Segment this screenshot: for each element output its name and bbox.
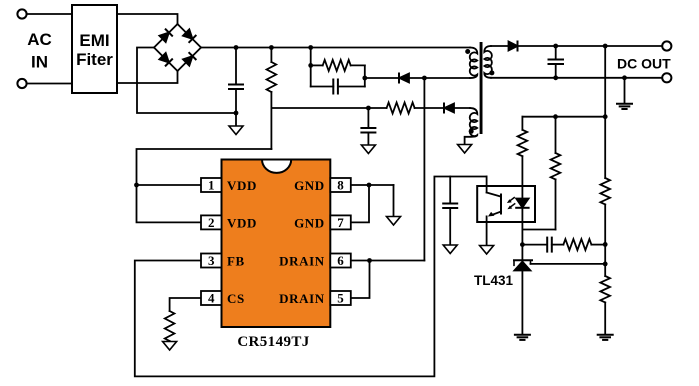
node C1 bottom (234, 111, 239, 116)
primary phase dot (465, 49, 470, 54)
svg-text:3: 3 (208, 253, 215, 268)
terminal DC OUT - (662, 73, 671, 82)
pin box 1 (201, 178, 222, 192)
wire drain (423, 78, 425, 261)
svg-text:2: 2 (208, 215, 215, 230)
ground (earth) DC OUT (617, 104, 632, 109)
pin box 7 (330, 215, 351, 229)
resistor R4 opto bias (518, 117, 528, 199)
wire snubber left (310, 48, 312, 87)
resistor R2 snubber (311, 60, 365, 71)
wire (117, 71, 178, 83)
diode D6 vdd (444, 104, 470, 113)
resistor R9 sense (165, 311, 175, 342)
ground (arrow) opto emitter (480, 246, 494, 255)
svg-text:FB: FB (227, 254, 245, 269)
transformer T1 core (480, 42, 483, 134)
resistor R8 divider lower (600, 276, 610, 302)
ground (arrow) IC gnd (387, 217, 401, 226)
node out gnd tee (622, 75, 627, 80)
svg-text:Fiter: Fiter (76, 50, 113, 69)
wire divider bottom (604, 302, 606, 334)
node C1 top (234, 45, 239, 50)
wire pin8 to pin7 (351, 185, 369, 222)
bridge diode D1 (left-top) (159, 29, 172, 42)
wire primary bottom (424, 77, 470, 79)
TL431 U3 (514, 260, 605, 334)
node snubber R tee (308, 63, 313, 68)
ground (arrow) aux (458, 145, 472, 154)
capacitor C6 comp (522, 238, 563, 252)
pin box 6 (330, 254, 351, 268)
resistor R5 parallel (551, 117, 561, 230)
bridge diode D4 (bottom-right) (183, 53, 196, 66)
svg-text:5: 5 (337, 291, 344, 306)
svg-text:IN: IN (31, 53, 48, 72)
svg-text:8: 8 (337, 178, 344, 193)
capacitor C1 bulk (229, 48, 243, 127)
svg-text:GND: GND (294, 215, 325, 230)
wire (365, 77, 399, 79)
wire divider vertical (604, 46, 606, 178)
svg-text:VDD: VDD (227, 178, 257, 193)
ground (arrow) under C5 (443, 245, 457, 254)
ground (earth) TL431 (515, 335, 530, 340)
node comp left (520, 242, 525, 247)
svg-text:GND: GND (294, 178, 325, 193)
wire cathode to TL431 (521, 245, 523, 261)
svg-text:EMI: EMI (79, 31, 109, 50)
capacitor C4 output (549, 46, 564, 78)
terminal DC OUT + (662, 41, 671, 50)
node C4 top (553, 44, 558, 49)
wire FB net (135, 177, 487, 377)
node bias tee (553, 114, 558, 119)
wire (518, 45, 663, 47)
ground (earth) divider (598, 335, 613, 340)
node aux cap tee (366, 106, 371, 111)
wire bridge minus (137, 48, 236, 114)
aux phase dot (469, 129, 474, 134)
transformer secondary winding (484, 46, 492, 78)
wire VDD feed (137, 149, 272, 222)
transformer primary winding (470, 48, 478, 79)
wire GND pin8 (351, 184, 394, 186)
node ref (603, 262, 608, 267)
wire gnd stub (393, 185, 395, 217)
terminal AC top (17, 9, 26, 18)
node A (603, 114, 608, 119)
wire (27, 13, 72, 15)
opto light arrows (507, 198, 515, 210)
pin box 4 (201, 291, 222, 305)
wire (117, 14, 178, 24)
IC U1 body (222, 160, 331, 328)
resistor R7 divider upper (600, 178, 610, 204)
svg-text:6: 6 (337, 253, 344, 268)
svg-text:DRAIN: DRAIN (279, 254, 325, 269)
wire VDD aux line (271, 107, 368, 109)
ground (arrow) under C3 (361, 145, 375, 154)
terminal AC bottom (17, 79, 26, 88)
ground (arrow) under C1 (229, 126, 243, 135)
opto LED (516, 199, 528, 245)
svg-text:4: 4 (208, 291, 215, 306)
svg-text:DC OUT: DC OUT (617, 56, 671, 72)
wire pin1 (137, 184, 202, 186)
node C4 bottom (553, 75, 558, 80)
pin box 5 (330, 291, 351, 305)
svg-text:CR5149TJ: CR5149TJ (237, 334, 309, 350)
bridge diode D3 (left-bottom) (159, 53, 172, 66)
pin box 8 (330, 178, 351, 192)
bridge rectifier diamond (154, 24, 201, 71)
bridge diode D2 (top-right) (183, 29, 196, 42)
IC notch (262, 160, 291, 173)
resistor R6 comp (563, 239, 605, 250)
resistor R3 vdd (368, 103, 443, 114)
svg-text:VDD: VDD (227, 215, 257, 230)
node comp right (603, 242, 608, 247)
wire DC+ rail (201, 47, 470, 49)
svg-text:CS: CS (227, 291, 245, 306)
wire node A to bias (522, 116, 605, 118)
node snubber out (362, 76, 367, 81)
wire secondary top (491, 45, 509, 47)
node snubber rail (308, 45, 313, 50)
wire (27, 83, 72, 85)
svg-text:7: 7 (337, 215, 344, 230)
diode D5 snubber (399, 74, 424, 83)
node divider top (603, 44, 608, 49)
capacitor C5 FB filter (443, 177, 457, 246)
svg-text:DRAIN: DRAIN (279, 291, 325, 306)
capacitor C2 snubber (311, 80, 365, 94)
wire DRAIN pin6 (351, 260, 424, 262)
transformer aux winding (465, 108, 478, 145)
wire CS pin (170, 298, 201, 311)
opto LED line (521, 186, 523, 199)
node drain top (422, 76, 427, 81)
pin box 3 (201, 254, 222, 268)
optocoupler U2 box (477, 186, 535, 222)
EMI filter box (72, 5, 117, 93)
secondary phase dot (489, 70, 494, 75)
wire snubber right (364, 65, 366, 86)
node pin1 tee (134, 183, 139, 188)
pin box 2 (201, 215, 222, 229)
node R1 top (269, 45, 274, 50)
wire out gnd stub (624, 78, 626, 104)
svg-text:AC: AC (27, 30, 52, 49)
resistor R1 startup (267, 48, 277, 150)
node pin6 (367, 258, 372, 263)
wire divider middle (604, 204, 606, 276)
diode D7 output rectifier (509, 42, 518, 51)
wire R5 to cathode (522, 229, 555, 231)
svg-text:1: 1 (208, 178, 215, 193)
svg-text:TL431: TL431 (474, 273, 514, 288)
capacitor C3 vdd (361, 108, 375, 145)
ground (arrow) CS (163, 342, 177, 351)
wire secondary bottom rail (491, 77, 662, 79)
node pin8 (367, 183, 372, 188)
wire pin6 to pin5 (351, 261, 370, 299)
opto transistor (487, 177, 501, 246)
